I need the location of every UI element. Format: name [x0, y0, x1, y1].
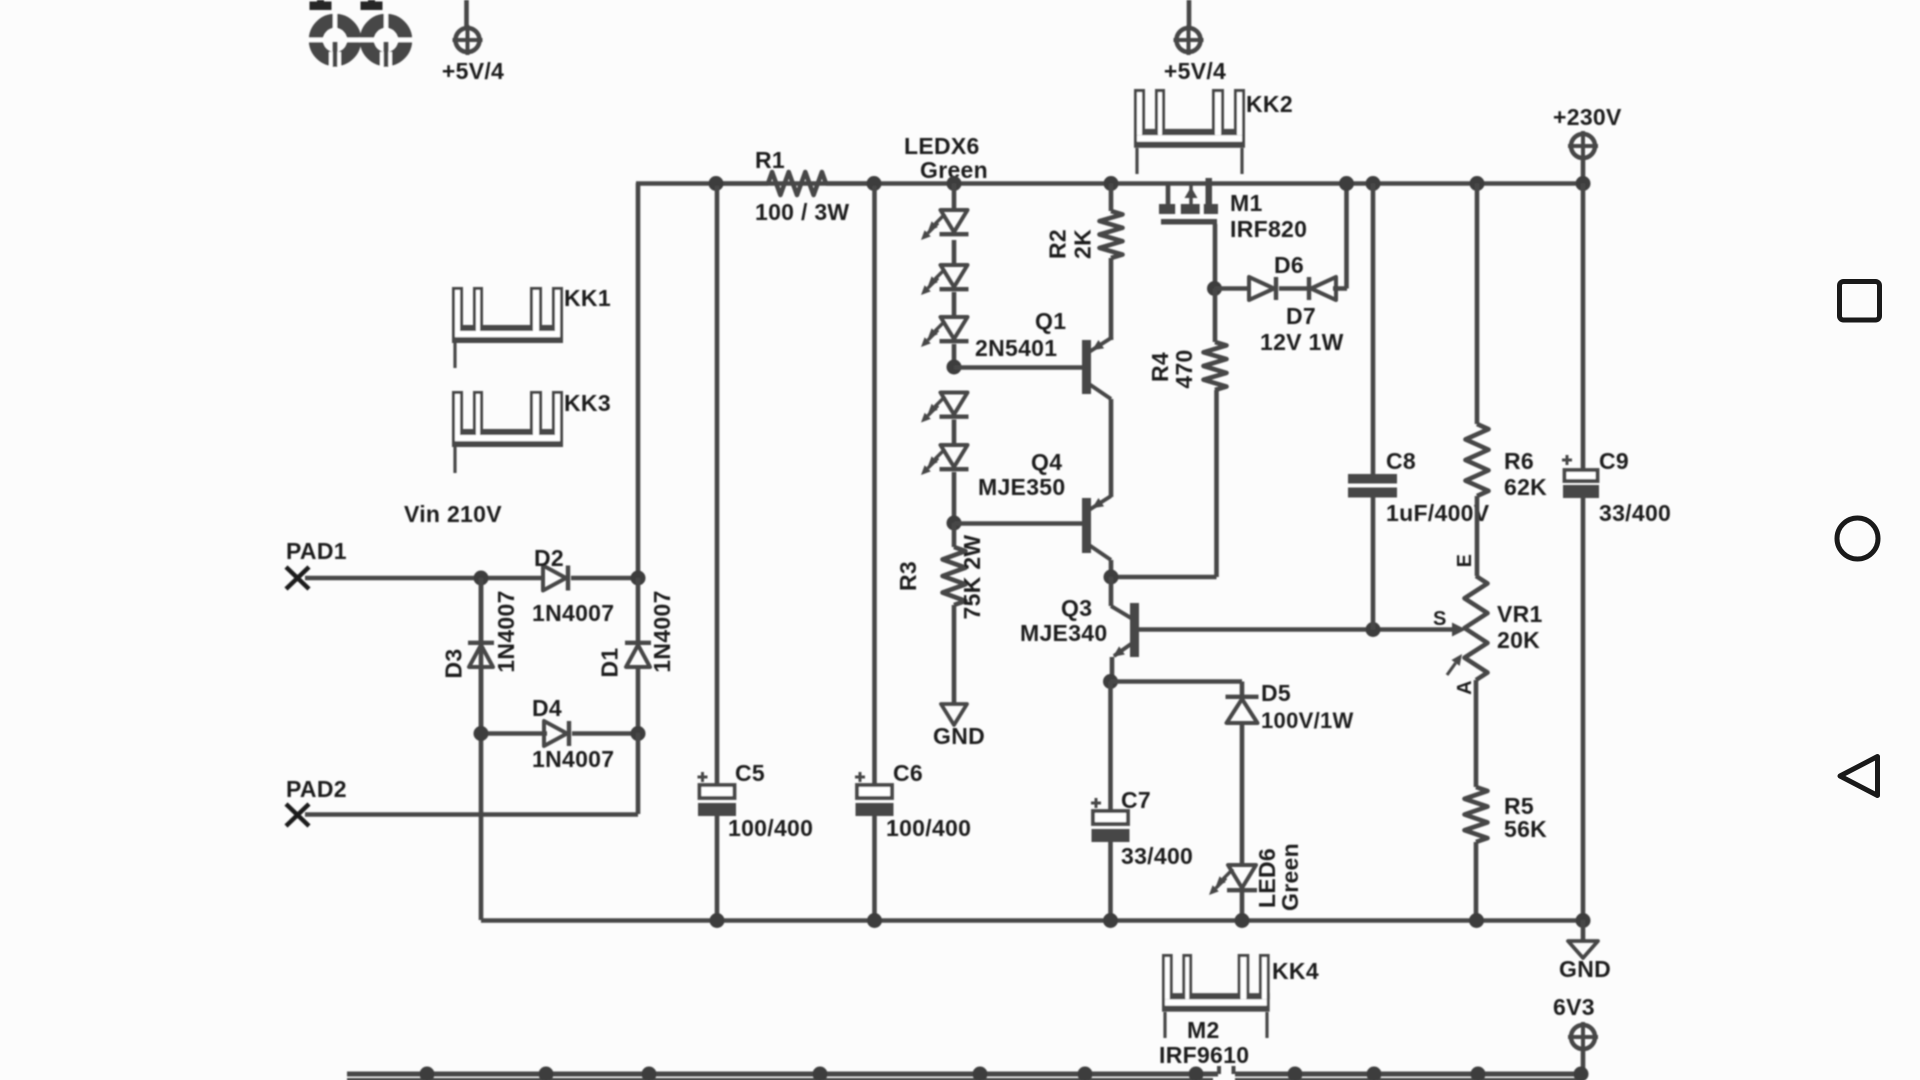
svg-text:100/400: 100/400: [886, 815, 971, 841]
pad PAD1 with wire: [286, 538, 481, 589]
wire top +rail: [636, 181, 1583, 186]
wire Q1 collector to Q4 emitter: [1109, 399, 1114, 497]
svg-text:D2: D2: [534, 545, 564, 571]
svg-text:VR1: VR1: [1497, 601, 1543, 627]
svg-text:R1: R1: [755, 147, 785, 173]
diode D3 1N4007: [441, 578, 520, 735]
svg-text:56K: 56K: [1504, 816, 1547, 842]
svg-text:+230V: +230V: [1553, 104, 1622, 130]
heatsink KK4: [1162, 954, 1319, 1038]
transistor M2 IRF9610 (label): [1159, 1017, 1249, 1068]
svg-text:33/400: 33/400: [1599, 500, 1671, 526]
potentiometer VR1 20K: [1433, 554, 1543, 695]
transistor Q4 MJE350 (PNP): [954, 449, 1111, 577]
svg-text:D1: D1: [597, 647, 623, 677]
svg-text:C8: C8: [1386, 448, 1416, 474]
transistor M1 IRF820 (MOSFET): [1159, 178, 1307, 288]
svg-text:100/400: 100/400: [728, 815, 813, 841]
resistor R2 2K: [1045, 176, 1123, 340]
resistor R1 100/3W: [709, 147, 882, 225]
LED LED6 Green: [1209, 843, 1303, 928]
wire rail corner down to bridge: [636, 183, 641, 578]
LED chain LEDX6 (5 green LEDs): [921, 176, 969, 531]
svg-text:2N5401: 2N5401: [975, 335, 1057, 361]
diode D2 1N4007: [474, 545, 646, 626]
power flag +5V/4 (above KK2): [1164, 0, 1226, 84]
svg-text:6V3: 6V3: [1553, 994, 1595, 1020]
svg-text:E: E: [1454, 554, 1476, 568]
label Vin 210V: [404, 501, 502, 527]
svg-text:1N4007: 1N4007: [649, 590, 675, 672]
wire bottom rail (lower section): [347, 1066, 1589, 1080]
power flag 6V3: [1553, 994, 1598, 1072]
heatsink KK2: [1134, 89, 1293, 174]
svg-text:GND: GND: [933, 723, 985, 749]
svg-text:1N4007: 1N4007: [532, 746, 614, 772]
label LEDX6 Green: [904, 133, 988, 183]
wire bridge left leg down to 0V rail: [479, 576, 484, 920]
svg-text:KK2: KK2: [1246, 91, 1293, 117]
svg-text:+5V/4: +5V/4: [442, 58, 504, 84]
resistor R3 75K 2W: [895, 523, 985, 704]
svg-text:C5: C5: [735, 760, 765, 786]
power flag +230V: [1553, 104, 1622, 183]
wire bottom 0V rail: [481, 918, 1583, 923]
svg-text:Q4: Q4: [1031, 449, 1062, 475]
svg-text:Q3: Q3: [1061, 595, 1092, 621]
svg-text:Q1: Q1: [1035, 308, 1066, 334]
svg-text:33/400: 33/400: [1121, 843, 1193, 869]
pad PAD2 with wire: [286, 776, 638, 826]
diodes D6 D7 12V 1W (back-to-back zener): [1207, 176, 1354, 355]
resistor R5 56K: [1465, 787, 1548, 928]
diode D5 100V/1W (zener): [1110, 680, 1354, 865]
svg-text:1uF/400V: 1uF/400V: [1386, 500, 1490, 526]
UI: android nav back triangle button: [1840, 757, 1878, 796]
wire Q3 base to VR1 wiper: [1138, 622, 1452, 637]
wire VR1 to R5: [1474, 680, 1479, 787]
svg-text:470: 470: [1171, 349, 1197, 388]
svg-text:GND: GND: [1559, 956, 1611, 982]
svg-text:75K 2W: 75K 2W: [959, 535, 985, 620]
capacitor C7 33/400: [1091, 674, 1193, 928]
heatsink KK1: [452, 285, 611, 368]
svg-text:R3: R3: [895, 561, 921, 591]
power flag +5V/4 (left): [442, 0, 504, 84]
ground GND (LED chain): [933, 704, 985, 749]
capacitor C6 100/400: [855, 186, 971, 928]
svg-text:R2: R2: [1045, 229, 1071, 259]
svg-text:IRF9610: IRF9610: [1159, 1042, 1249, 1068]
svg-text:D3: D3: [441, 648, 467, 678]
heatsink KK3: [452, 390, 611, 473]
svg-text:LEDX6: LEDX6: [904, 133, 980, 159]
transistor Q3 MJE340 (NPN): [1020, 570, 1139, 682]
svg-text:KK1: KK1: [564, 285, 611, 311]
svg-text:C7: C7: [1121, 787, 1151, 813]
connector pad P2 (pin 1): [359, 0, 413, 69]
svg-text:R6: R6: [1504, 448, 1534, 474]
diode D4 1N4007: [474, 695, 646, 772]
svg-text:M2: M2: [1187, 1017, 1220, 1043]
capacitor C5 100/400: [698, 186, 814, 928]
connector pad P1 (pin 1): [308, 0, 362, 69]
svg-text:C9: C9: [1599, 448, 1629, 474]
svg-text:12V 1W: 12V 1W: [1260, 329, 1344, 355]
svg-text:KK4: KK4: [1272, 958, 1319, 984]
svg-text:MJE350: MJE350: [978, 474, 1065, 500]
svg-text:R4: R4: [1147, 352, 1173, 382]
svg-text:PAD2: PAD2: [286, 776, 347, 802]
UI: android nav square button: [1840, 282, 1880, 321]
svg-text:M1: M1: [1230, 190, 1263, 216]
ground GND (output): [1559, 913, 1611, 982]
svg-text:1N4007: 1N4007: [493, 590, 519, 672]
svg-text:2K: 2K: [1070, 229, 1096, 259]
svg-text:IRF820: IRF820: [1230, 216, 1307, 242]
svg-text:1N4007: 1N4007: [532, 600, 614, 626]
svg-text:MJE340: MJE340: [1020, 620, 1107, 646]
svg-text:100 / 3W: 100 / 3W: [755, 199, 849, 225]
svg-text:20K: 20K: [1497, 627, 1540, 653]
svg-text:Green: Green: [1277, 843, 1303, 911]
svg-text:Vin 210V: Vin 210V: [404, 501, 502, 527]
svg-text:C6: C6: [893, 760, 923, 786]
diode D1 1N4007: [597, 578, 676, 735]
capacitor C8 1uF/400V: [1348, 176, 1490, 630]
svg-text:D6: D6: [1274, 252, 1304, 278]
wire D1/D4 junction to PAD2 line: [636, 733, 641, 814]
svg-text:PAD1: PAD1: [286, 538, 347, 564]
resistor R4 470: [1111, 289, 1227, 578]
svg-text:D5: D5: [1261, 680, 1291, 706]
svg-text:A: A: [1454, 680, 1476, 695]
svg-text:+5V/4: +5V/4: [1164, 58, 1226, 84]
UI: android nav circle button: [1837, 518, 1878, 559]
svg-text:D4: D4: [532, 695, 562, 721]
transistor Q1 2N5401 (PNP): [954, 308, 1111, 399]
capacitor C9 33/400: [1562, 176, 1671, 920]
svg-text:62K: 62K: [1504, 474, 1547, 500]
svg-text:100V/1W: 100V/1W: [1261, 708, 1354, 733]
svg-text:S: S: [1433, 608, 1447, 630]
svg-text:KK3: KK3: [564, 390, 611, 416]
resistor R6 62K: [1466, 176, 1548, 576]
svg-text:D7: D7: [1286, 303, 1316, 329]
